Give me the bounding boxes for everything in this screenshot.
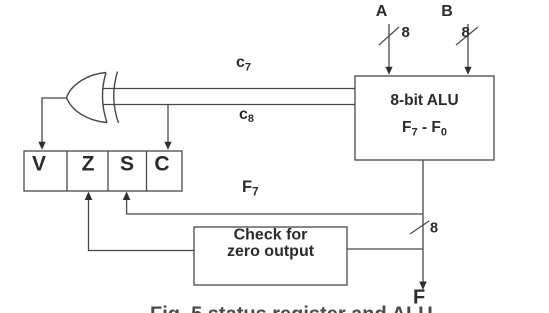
svg-text:8: 8 (402, 24, 410, 41)
svg-text:S: S (120, 153, 134, 176)
svg-text:Check for: Check for (234, 227, 308, 244)
svg-text:c7: c7 (236, 54, 251, 74)
svg-text:8: 8 (430, 221, 438, 237)
svg-text:A: A (376, 3, 388, 20)
svg-text:c8: c8 (239, 106, 254, 125)
svg-text:V: V (32, 153, 46, 176)
svg-text:B: B (441, 3, 453, 20)
svg-text:F7 - F0: F7 - F0 (402, 119, 447, 139)
svg-text:F7: F7 (242, 178, 259, 199)
svg-text:8-bit ALU: 8-bit ALU (390, 92, 458, 109)
svg-text:Z: Z (82, 153, 95, 176)
svg-text:C: C (154, 153, 169, 176)
svg-text:8: 8 (462, 24, 470, 41)
svg-text:zero output: zero output (227, 243, 315, 260)
svg-text:Fig. 5 status register and ALU: Fig. 5 status register and ALU (150, 304, 433, 313)
